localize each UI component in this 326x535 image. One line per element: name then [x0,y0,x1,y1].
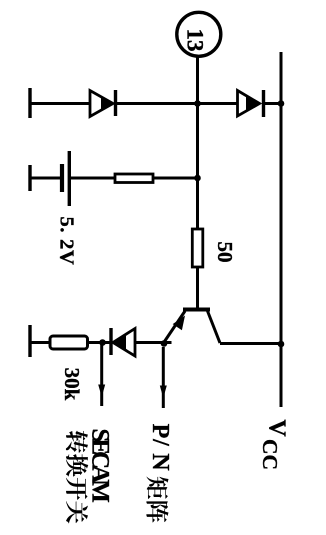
svg-text:13: 13 [183,29,208,52]
svg-text:V: V [264,419,290,437]
svg-text:P/ N: P/ N [147,424,173,472]
svg-text:50: 50 [213,242,237,263]
svg-text:SECAM: SECAM [87,429,114,503]
svg-text:30k: 30k [60,368,84,401]
svg-text:5. 2V: 5. 2V [56,216,78,265]
svg-text:CC: CC [258,439,282,470]
